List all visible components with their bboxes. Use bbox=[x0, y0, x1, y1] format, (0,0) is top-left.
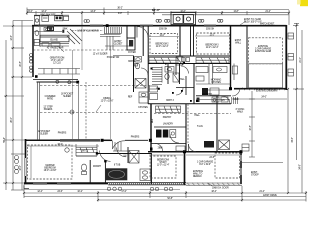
wall: top exterior bbox=[32, 25, 287, 27]
closet X box right bbox=[219, 140, 230, 150]
bench lines below window band bbox=[100, 35, 121, 37]
grid bubbles left lower bbox=[15, 156, 19, 174]
svg-text:11'-8": 11'-8" bbox=[233, 11, 238, 13]
bar counter boxes bbox=[42, 43, 60, 46]
svg-text:16'-0": 16'-0" bbox=[20, 165, 22, 171]
closet shelves top bbox=[76, 144, 97, 156]
porch bay top center bbox=[171, 12, 196, 24]
master dashed inset bbox=[28, 145, 73, 179]
marks between closets bbox=[182, 58, 186, 62]
counter dark bits bbox=[197, 98, 200, 103]
right dimension lines bbox=[242, 23, 304, 193]
wall: bath west x133.5 bbox=[133, 56, 135, 93]
patio west edge bbox=[37, 82, 39, 140]
wall: bath north y153.5 bbox=[97, 153, 151, 155]
wall: step y79.5 bbox=[33, 79, 78, 81]
svg-text:24'-8": 24'-8" bbox=[209, 157, 215, 159]
wall: y82 bbox=[37, 81, 79, 83]
svg-text:11'-0" x 12'-4": 11'-0" x 12'-4" bbox=[156, 46, 169, 48]
circles on beam wall bbox=[56, 80, 59, 83]
svg-text:24'-8": 24'-8" bbox=[300, 164, 302, 170]
wall: existing garage west x247 bbox=[246, 26, 248, 89]
svg-text:MATCH EXIST.: MATCH EXIST. bbox=[260, 23, 275, 26]
dashed vertical x188 bbox=[187, 104, 189, 143]
leader arrows scattered bbox=[58, 21, 246, 186]
internal dim vertical x72.5 bbox=[72, 50, 74, 139]
wall: y103.5 center bbox=[148, 103, 231, 105]
wall: south y183.3 master wing bbox=[24, 182, 108, 184]
kitchen counter along top bbox=[34, 27, 69, 47]
svg-text:12'-0" x 10'-0": 12'-0" x 10'-0" bbox=[101, 100, 114, 102]
wall: bath partitions bbox=[89, 160, 91, 183]
bedroom interior dim lines bbox=[149, 35, 230, 38]
window marks master west bbox=[25, 158, 27, 176]
wall: foyer east x143 bbox=[142, 26, 144, 56]
svg-text:CLOSET: CLOSET bbox=[114, 43, 123, 45]
svg-text:58'-4": 58'-4" bbox=[4, 137, 6, 143]
wall: center vertical x151 lower bbox=[150, 104, 152, 152]
patio circle symbol bbox=[70, 110, 74, 114]
svg-text:21'-0": 21'-0" bbox=[300, 57, 302, 63]
svg-text:HALL: HALL bbox=[194, 114, 200, 117]
svg-text:34'-6": 34'-6" bbox=[292, 137, 294, 143]
grid bubble pairs on top wall bbox=[84, 19, 223, 22]
svg-text:12'-2": 12'-2" bbox=[41, 11, 47, 13]
svg-text:KITCHEN: KITCHEN bbox=[211, 82, 221, 84]
wall: master west x25.5 bbox=[25, 139, 27, 184]
dashed ceiling line y50 bbox=[33, 49, 133, 51]
svg-text:FOYER: FOYER bbox=[128, 52, 136, 54]
svg-text:12'-6": 12'-6" bbox=[11, 35, 13, 41]
svg-text:36'-2": 36'-2" bbox=[117, 8, 123, 10]
shower bbox=[129, 151, 139, 164]
closet band under bed3 bbox=[196, 58, 229, 64]
svg-text:84'-0": 84'-0" bbox=[152, 8, 161, 12]
wall: 1car garage east x241 bbox=[240, 152, 242, 184]
garage inner slab rect bbox=[249, 64, 283, 88]
bath3 shower bbox=[176, 57, 183, 65]
svg-text:12' CLG: 12' CLG bbox=[53, 62, 61, 64]
svg-text:W.I.C.: W.I.C. bbox=[82, 151, 88, 153]
steps outside garage1 east bbox=[242, 144, 249, 151]
outdoor kitchen boxes bbox=[34, 15, 69, 25]
wall: laundry shelf y127 bbox=[154, 126, 186, 128]
wall: garage south hatch band bbox=[186, 183, 242, 185]
svg-text:STOOP: STOOP bbox=[251, 174, 259, 176]
svg-text:POCKET DR: POCKET DR bbox=[107, 57, 120, 59]
stair run top-center bbox=[104, 27, 122, 34]
bedroom2 dashed inset bbox=[150, 34, 178, 54]
svg-text:6' TUB: 6' TUB bbox=[114, 165, 121, 167]
svg-text:11'-0": 11'-0" bbox=[159, 35, 164, 37]
svg-text:MUD: MUD bbox=[234, 99, 239, 101]
kitchen cooktop dark bbox=[48, 27, 54, 31]
left small circles column x31 bbox=[30, 54, 33, 73]
door arc bath bbox=[141, 68, 148, 75]
svg-text:WALL: WALL bbox=[235, 41, 242, 44]
driveway dim vertical x252 bbox=[232, 91, 288, 157]
svg-text:M.BATH: M.BATH bbox=[93, 165, 101, 168]
svg-text:WALK: WALK bbox=[237, 110, 244, 113]
svg-text:2868: 2868 bbox=[158, 148, 164, 150]
wall: laundry south y143 bbox=[151, 143, 186, 145]
svg-text:24'-0": 24'-0" bbox=[27, 11, 33, 13]
svg-text:11'-2": 11'-2" bbox=[209, 34, 214, 36]
svg-text:21'-4": 21'-4" bbox=[265, 11, 271, 13]
internal dim vertical x110 bbox=[109, 46, 111, 139]
svg-text:BATH 3: BATH 3 bbox=[166, 99, 174, 102]
svg-text:PAVERS: PAVERS bbox=[58, 132, 67, 135]
svg-text:3068 O.H. DOOR: 3068 O.H. DOOR bbox=[212, 188, 229, 190]
posts bottom rooms bbox=[183, 150, 186, 153]
mud bench bbox=[176, 146, 185, 151]
svg-text:LINE OF CLG ABOVE: LINE OF CLG ABOVE bbox=[77, 30, 99, 33]
yellow highlight corner bbox=[300, 0, 308, 6]
tub dark bbox=[106, 168, 128, 180]
patio slider arc bbox=[113, 141, 126, 150]
wall: right exterior garage bbox=[285, 25, 287, 90]
bottom dimension lines bbox=[24, 186, 306, 202]
study dim line bbox=[149, 154, 183, 156]
svg-text:5' LIN.: 5' LIN. bbox=[197, 126, 203, 128]
master hall closet lines bbox=[113, 142, 128, 151]
svg-text:A/C: A/C bbox=[221, 99, 225, 102]
stair down center bbox=[152, 67, 162, 69]
svg-text:9'-0": 9'-0" bbox=[118, 13, 122, 15]
hall counter y97-103 bbox=[196, 97, 230, 102]
media beam lines great room bbox=[38, 69, 80, 75]
top dimension line upper bbox=[27, 8, 289, 26]
arc hall-master bbox=[170, 134, 179, 143]
circled marker in master bbox=[65, 148, 69, 152]
svg-text:EXISTING SLAB: EXISTING SLAB bbox=[255, 50, 272, 53]
top dim ticks bbox=[26, 12, 290, 14]
wall: bed2 east x180 bbox=[179, 26, 181, 56]
svg-text:LIN.: LIN. bbox=[156, 88, 160, 90]
lockers dark block bbox=[204, 141, 214, 148]
vanity double bbox=[140, 169, 151, 181]
svg-text:ISLAND: ISLAND bbox=[50, 39, 58, 42]
fridge black bbox=[202, 88, 208, 95]
fireplace chase bbox=[126, 26, 128, 38]
svg-text:PATIO: PATIO bbox=[47, 97, 53, 100]
wall: south y184 bath/center hatched bbox=[108, 183, 186, 185]
svg-text:3050 SH: 3050 SH bbox=[206, 29, 215, 31]
circled numbers below wall bbox=[107, 187, 172, 191]
master interior dim bbox=[27, 145, 99, 147]
svg-text:52'-8": 52'-8" bbox=[167, 198, 173, 200]
wall: master north y140 bbox=[25, 139, 60, 141]
svg-text:KITCHEN: KITCHEN bbox=[138, 107, 148, 109]
sill dim line below south wall bbox=[24, 189, 180, 191]
left dimension lines bbox=[3, 21, 33, 191]
wall: hall east x230.5 bbox=[230, 26, 232, 89]
svg-text:16'-0" x 13'-8": 16'-0" x 13'-8" bbox=[44, 170, 57, 172]
svg-text:EXISTING DRIVEWAY: EXISTING DRIVEWAY bbox=[256, 90, 278, 93]
fireplace box bbox=[127, 38, 135, 50]
left dim ticks bbox=[5, 25, 23, 184]
closet band under bed2 bbox=[149, 58, 178, 64]
dashed y85.5 bbox=[40, 85, 150, 87]
post bbox=[76, 81, 79, 84]
svg-text:10'-2": 10'-2" bbox=[77, 191, 83, 193]
corner tick bottom-left of wing bbox=[24, 185, 29, 189]
svg-text:SLIDER: SLIDER bbox=[40, 133, 48, 135]
svg-text:24'-0": 24'-0" bbox=[261, 97, 267, 99]
nook counter right of patio bbox=[139, 92, 148, 103]
svg-text:PAVERS: PAVERS bbox=[44, 108, 53, 111]
svg-text:REF: REF bbox=[128, 97, 133, 99]
svg-text:HALL: HALL bbox=[179, 78, 185, 81]
tiny black marks bbox=[158, 88, 160, 90]
svg-text:11'-0" x 11'-4": 11'-0" x 11'-4" bbox=[157, 164, 170, 166]
wall: existing garage bottom bbox=[234, 88, 287, 90]
svg-text:REF: REF bbox=[152, 118, 154, 123]
window band top wall left bbox=[38, 25, 54, 27]
svg-text:LAUNDRY: LAUNDRY bbox=[202, 93, 213, 96]
svg-text:16'-8": 16'-8" bbox=[250, 125, 252, 131]
svg-text:EXIST. DRIVE: EXIST. DRIVE bbox=[263, 195, 277, 197]
counter line y90 bbox=[208, 89, 231, 91]
wall: study/garage divider x184.5 bbox=[184, 152, 186, 185]
wall: study west x151.3 bbox=[150, 153, 152, 184]
bedroom3 dashed inset bbox=[197, 33, 230, 54]
svg-text:18'-4": 18'-4" bbox=[211, 191, 217, 193]
svg-text:20'-8": 20'-8" bbox=[20, 61, 22, 67]
entry door arc bbox=[137, 27, 148, 38]
washer dryer bbox=[156, 130, 162, 138]
hall bath bbox=[165, 67, 174, 73]
garage dashed inset bbox=[249, 38, 283, 64]
svg-text:LAUNDRY: LAUNDRY bbox=[163, 123, 174, 126]
toilet bbox=[81, 164, 86, 171]
window gaps in south wall bbox=[33, 182, 47, 184]
kitchen island bbox=[40, 35, 69, 42]
linen boxes bbox=[150, 86, 158, 92]
svg-text:21'-4": 21'-4" bbox=[259, 191, 265, 193]
svg-text:9'-0" x 19'-0": 9'-0" x 19'-0" bbox=[199, 164, 211, 166]
svg-text:26'-0": 26'-0" bbox=[11, 117, 13, 123]
svg-text:11'-2" x 12'-4": 11'-2" x 12'-4" bbox=[206, 47, 219, 49]
morning kitchen counters bbox=[196, 67, 208, 73]
svg-text:BATH 2: BATH 2 bbox=[128, 60, 136, 63]
hall arcs bbox=[181, 66, 189, 74]
svg-text:12' x 8' SLIDER: 12' x 8' SLIDER bbox=[93, 54, 108, 56]
master interior vertical dim bbox=[30, 146, 32, 178]
door arc to garage bbox=[189, 144, 197, 152]
svg-text:REMAIN: REMAIN bbox=[193, 175, 202, 178]
svg-text:PANTRY: PANTRY bbox=[163, 116, 172, 119]
small closet lines bbox=[208, 64, 210, 85]
wall: left exterior upper bbox=[32, 25, 34, 77]
garage window symbols east bbox=[288, 33, 294, 76]
wall: closets south y63.5 bbox=[148, 63, 231, 65]
svg-text:SINK: SINK bbox=[63, 29, 69, 31]
svg-text:PAVERS: PAVERS bbox=[131, 136, 140, 139]
garage1 dashed inset bbox=[215, 153, 240, 178]
wall segments hall bbox=[193, 64, 195, 105]
svg-text:12'-4": 12'-4" bbox=[37, 191, 43, 193]
wall: rooms top y151.7 bbox=[148, 151, 242, 153]
master entry arcs bbox=[100, 151, 111, 162]
corner pantry diagonals bbox=[67, 29, 82, 44]
dashed band center y113 bbox=[154, 113, 231, 115]
wall: bed2 west x148 bbox=[147, 26, 149, 104]
dashed clg line y30.5 bbox=[72, 30, 103, 32]
garage1 dim bbox=[186, 154, 240, 156]
svg-text:17'-0": 17'-0" bbox=[121, 191, 127, 193]
dim extension x82 into plan bbox=[81, 26, 83, 70]
hatch below garage bottom wall bbox=[242, 88, 285, 91]
svg-text:SLIDER: SLIDER bbox=[63, 96, 71, 98]
svg-text:16'-0": 16'-0" bbox=[57, 144, 63, 146]
mud hall arcs near garage bbox=[232, 64, 240, 97]
svg-text:14'-6": 14'-6" bbox=[90, 11, 96, 13]
entry details right of stair bbox=[105, 36, 133, 56]
wall: laundry east x186 bbox=[185, 104, 187, 152]
wall: bedrooms south y56 bbox=[148, 55, 231, 57]
post at left step bbox=[35, 75, 38, 78]
svg-text:3050 SH: 3050 SH bbox=[159, 29, 168, 31]
patio interior verticals bbox=[78, 82, 80, 140]
door arc laundry bbox=[155, 144, 163, 152]
svg-text:24'-6": 24'-6" bbox=[57, 191, 63, 193]
wall: x217 bbox=[216, 96, 218, 152]
study dashed inset bbox=[150, 156, 176, 178]
wall: bed3 west x193 bbox=[190, 26, 192, 56]
posts at bath walls bbox=[96, 152, 98, 154]
